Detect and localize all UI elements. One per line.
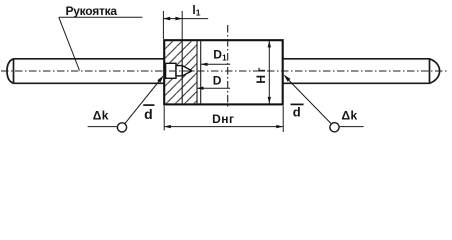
bushing wall line 2 (200, 41, 202, 103)
l1 plane line inside hub (181, 41, 183, 103)
svg-text:d: d (144, 106, 153, 122)
svg-text:Hг: Hг (254, 65, 268, 84)
label d left (143, 105, 154, 122)
svg-text:Dнг: Dнг (212, 112, 234, 126)
leader D (197, 73, 230, 90)
svg-text:Δk: Δk (93, 109, 109, 123)
hub hatching (sectioned bushing) (165, 41, 197, 103)
svg-text:Δk: Δk (342, 109, 358, 123)
dimension Dng (164, 106, 283, 132)
svg-text:d: d (293, 105, 301, 120)
dimension Hg (254, 41, 271, 104)
dimension l1 (163, 3, 208, 40)
label Rukoyatka with leader (59, 4, 143, 71)
hub body (handle boss rectangle) (164, 40, 283, 104)
vertical centerline (handle axis) (227, 25, 229, 109)
svg-text:Рукоятка: Рукоятка (66, 4, 118, 18)
delta-k right group (284, 75, 364, 132)
svg-text:D: D (213, 73, 222, 87)
leader D1 (201, 47, 230, 66)
bushing wall line 1 (196, 41, 198, 103)
delta-k left group (88, 75, 164, 132)
label d right (291, 104, 304, 119)
set screw (white masked over hatch) (166, 63, 192, 78)
left shaft (7, 59, 164, 84)
horizontal centerline (1, 70, 448, 72)
right shaft (283, 59, 440, 84)
